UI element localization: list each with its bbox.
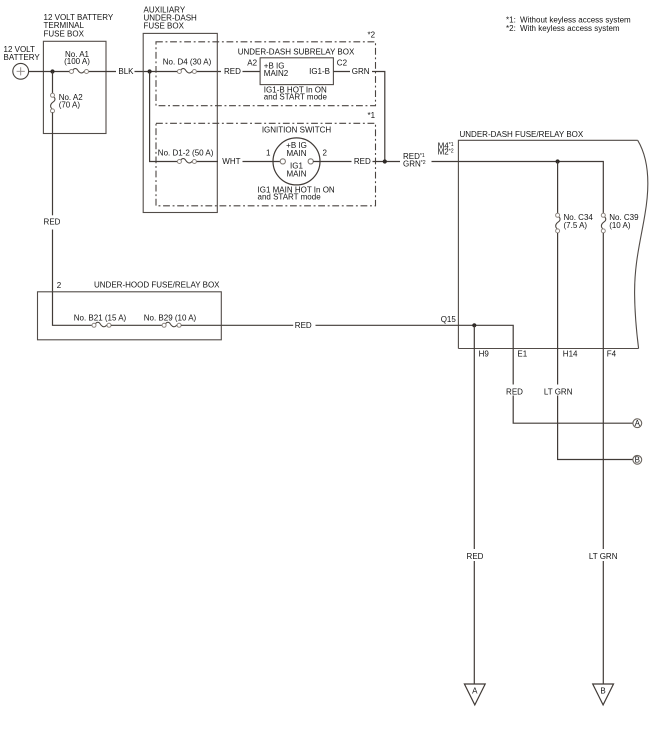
svg-text:2: 2 — [57, 281, 62, 290]
svg-text:No. B21 (15 A): No. B21 (15 A) — [74, 314, 127, 323]
svg-text:MAIN: MAIN — [287, 149, 307, 158]
svg-text:*1:: *1: — [506, 15, 516, 24]
svg-text:and START mode: and START mode — [258, 193, 322, 202]
svg-text:IGNITION SWITCH: IGNITION SWITCH — [262, 126, 332, 135]
svg-text:With keyless access system: With keyless access system — [520, 24, 620, 33]
svg-text:B: B — [600, 686, 605, 695]
svg-text:(70 A): (70 A) — [59, 100, 81, 109]
svg-text:C2: C2 — [337, 58, 348, 67]
svg-text:No. D1-2 (50 A): No. D1-2 (50 A) — [158, 149, 214, 158]
svg-text:Without keyless access system: Without keyless access system — [520, 15, 631, 24]
svg-text:A: A — [635, 419, 641, 428]
svg-text:BATTERY: BATTERY — [4, 53, 41, 62]
svg-text:(100 A): (100 A) — [64, 57, 90, 66]
svg-text:MAIN: MAIN — [287, 169, 307, 178]
svg-text:*2:: *2: — [506, 24, 516, 33]
svg-text:RED: RED — [506, 388, 523, 397]
svg-text:*1: *1 — [368, 111, 376, 120]
svg-text:(7.5 A): (7.5 A) — [564, 221, 588, 230]
svg-text:FUSE BOX: FUSE BOX — [144, 22, 185, 31]
svg-text:E1: E1 — [517, 350, 527, 359]
svg-text:RED: RED — [354, 157, 371, 166]
svg-text:No. B29 (10 A): No. B29 (10 A) — [144, 314, 197, 323]
svg-text:Q15: Q15 — [441, 315, 457, 324]
svg-text:A2: A2 — [247, 58, 257, 67]
svg-text:and START mode: and START mode — [264, 93, 328, 102]
svg-text:*2: *2 — [368, 31, 376, 40]
svg-text:RED: RED — [295, 321, 312, 330]
svg-text:No. D4 (30 A): No. D4 (30 A) — [163, 58, 212, 67]
svg-text:FUSE BOX: FUSE BOX — [44, 29, 85, 38]
svg-text:UNDER-HOOD FUSE/RELAY BOX: UNDER-HOOD FUSE/RELAY BOX — [94, 281, 220, 290]
svg-text:B: B — [635, 455, 640, 464]
svg-text:IG1-B: IG1-B — [309, 67, 330, 76]
svg-text:(10 A): (10 A) — [609, 221, 631, 230]
svg-text:H9: H9 — [479, 350, 490, 359]
svg-text:RED: RED — [224, 67, 241, 76]
svg-text:F4: F4 — [607, 350, 617, 359]
svg-text:WHT: WHT — [222, 157, 240, 166]
svg-text:A: A — [472, 686, 478, 695]
svg-text:H14: H14 — [563, 350, 578, 359]
svg-text:UNDER-DASH SUBRELAY BOX: UNDER-DASH SUBRELAY BOX — [238, 47, 355, 56]
svg-text:2: 2 — [323, 149, 328, 158]
svg-text:MAIN2: MAIN2 — [264, 69, 289, 78]
svg-text:1: 1 — [266, 149, 271, 158]
svg-text:GRN: GRN — [352, 67, 370, 76]
svg-text:UNDER-DASH FUSE/RELAY BOX: UNDER-DASH FUSE/RELAY BOX — [460, 130, 584, 139]
svg-text:BLK: BLK — [118, 67, 134, 76]
svg-text:LT GRN: LT GRN — [544, 388, 573, 397]
svg-text:RED: RED — [44, 218, 61, 227]
svg-text:LT GRN: LT GRN — [589, 552, 618, 561]
svg-text:RED: RED — [467, 552, 484, 561]
